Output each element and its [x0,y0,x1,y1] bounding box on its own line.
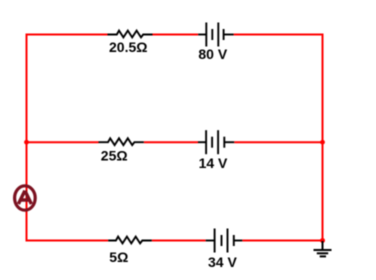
wire bottom segment right [242,240,323,242]
wire right vertical [322,34,324,242]
wire middle segment mid [144,141,198,143]
wire middle segment right [234,141,323,143]
wire bottom segment left [26,240,109,242]
svg-text:5Ω: 5Ω [109,249,128,265]
resistor R2 25ohm [99,138,144,145]
svg-text:14 V: 14 V [199,155,228,171]
node junction left-middle [24,140,29,145]
ground [314,241,332,256]
wire middle segment left [26,141,99,143]
resistor R3 5ohm [108,237,152,244]
node junction right-middle [320,140,325,145]
wire bottom segment mid [152,240,206,242]
wire top segment right [234,34,324,36]
svg-text:25Ω: 25Ω [101,148,128,164]
ammeter A1 [15,186,36,210]
svg-text:80 V: 80 V [198,46,227,62]
resistor R1 20.5ohm [108,31,153,38]
battery V2 14V [198,130,234,154]
wire top segment mid [153,34,199,36]
svg-text:34 V: 34 V [208,254,237,270]
wire top segment left [26,34,108,36]
battery V1 80V [198,23,233,47]
battery V3 34V [206,229,243,253]
wire top-left to right: top horizontal net [26,34,324,242]
svg-text:20.5Ω: 20.5Ω [109,39,147,55]
wire left vertical [26,34,28,242]
node junction right-bottom [320,238,325,243]
